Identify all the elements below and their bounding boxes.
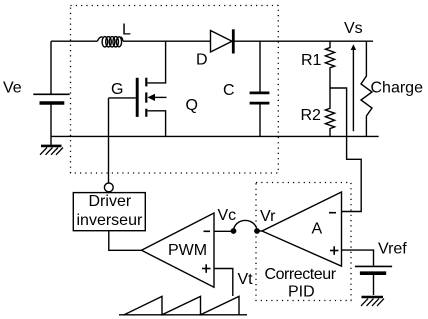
svg-text:C: C bbox=[223, 82, 235, 99]
wire Ve vertical branch bbox=[50, 41, 52, 146]
sawtooth Vt waveform bbox=[119, 296, 247, 314]
svg-text:Vr: Vr bbox=[260, 208, 276, 225]
transistor Q bbox=[109, 41, 167, 136]
wire Vt input bbox=[214, 269, 233, 297]
svg-text:D: D bbox=[196, 52, 208, 69]
wire op-amp plus lead to Vref bbox=[342, 250, 374, 295]
svg-text:Vref: Vref bbox=[378, 241, 407, 258]
svg-text:PID: PID bbox=[288, 284, 315, 301]
resistor R2 bbox=[325, 88, 334, 136]
wire gate to driver bubble bbox=[108, 98, 110, 183]
ground below Vref bbox=[361, 297, 384, 306]
resistor Charge bbox=[361, 41, 372, 136]
svg-text:Vt: Vt bbox=[238, 271, 254, 288]
svg-text:L: L bbox=[122, 22, 131, 39]
source Ve battery bbox=[33, 94, 69, 103]
svg-text:Q: Q bbox=[186, 97, 198, 114]
wire Vc lead bbox=[214, 230, 234, 232]
ground below Ve bbox=[40, 146, 63, 155]
svg-text:Driver: Driver bbox=[89, 193, 132, 210]
link arc Vc to Vr bbox=[234, 220, 258, 230]
svg-text:Charge: Charge bbox=[371, 80, 424, 97]
svg-text:Vc: Vc bbox=[218, 207, 237, 224]
svg-text:Correcteur: Correcteur bbox=[265, 266, 337, 283]
arrow Vs measurement bbox=[351, 44, 356, 131]
resistor R1 bbox=[325, 41, 334, 88]
op-amp PWM comparator bbox=[142, 213, 215, 287]
dotted box correcteur PID bbox=[256, 183, 351, 301]
inductor L bbox=[98, 37, 124, 47]
svg-text:PWM: PWM bbox=[168, 242, 207, 259]
svg-text:G: G bbox=[111, 81, 123, 98]
dotted box power stage bbox=[71, 6, 279, 174]
svg-text:inverseur: inverseur bbox=[77, 212, 143, 229]
wire driver to PWM apex bbox=[109, 231, 142, 251]
op-amp A bbox=[256, 192, 342, 266]
svg-text:A: A bbox=[312, 221, 323, 238]
wire feedback divider tap to op-amp bbox=[330, 88, 361, 212]
wire bottom rail bbox=[51, 135, 379, 137]
source Vref battery bbox=[355, 266, 392, 273]
wire top rail bbox=[51, 40, 373, 42]
diode D bbox=[211, 29, 234, 53]
svg-text:R1: R1 bbox=[301, 52, 322, 69]
node Vc bbox=[231, 228, 237, 234]
svg-text:Vs: Vs bbox=[344, 20, 363, 37]
svg-text:Ve: Ve bbox=[3, 80, 22, 97]
node Vr bbox=[254, 228, 260, 234]
svg-text:R2: R2 bbox=[301, 107, 322, 124]
driver inverseur block bbox=[73, 183, 145, 231]
capacitor C bbox=[250, 41, 270, 136]
